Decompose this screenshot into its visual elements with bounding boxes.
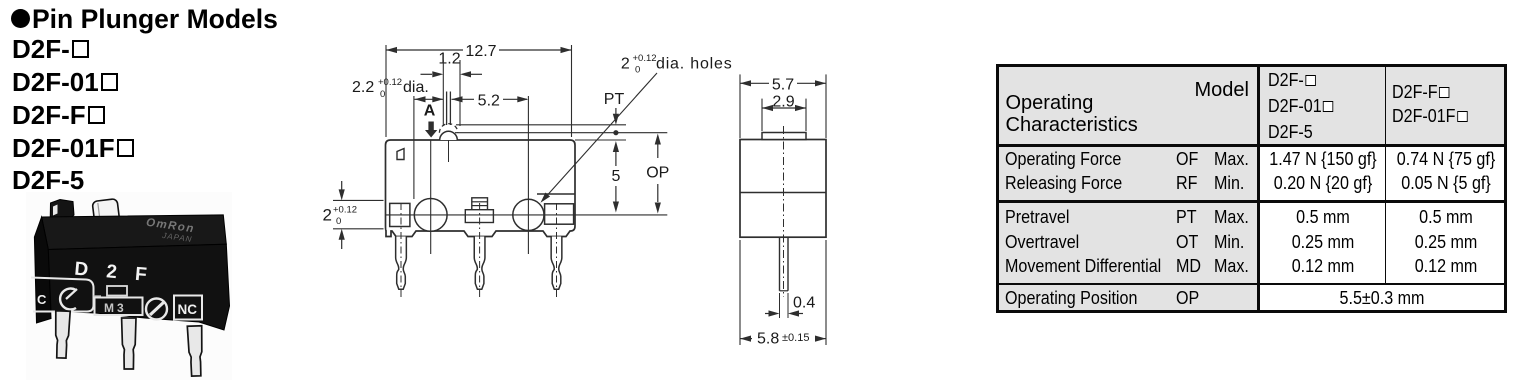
- svg-text:PT: PT: [604, 91, 625, 108]
- svg-text:5: 5: [611, 168, 620, 185]
- svg-text:M3: M3: [104, 301, 127, 315]
- svg-text:0: 0: [380, 89, 385, 100]
- svg-text:5.2: 5.2: [478, 92, 500, 109]
- svg-text:dia. holes: dia. holes: [656, 56, 733, 73]
- svg-text:12.7: 12.7: [465, 43, 496, 60]
- svg-text:NC: NC: [178, 302, 198, 317]
- svg-text:C: C: [37, 292, 47, 307]
- svg-text:±0.15: ±0.15: [782, 332, 809, 344]
- svg-text:0: 0: [635, 65, 640, 76]
- svg-text:2: 2: [621, 56, 630, 73]
- svg-text:A: A: [424, 103, 436, 120]
- svg-text:5.7: 5.7: [772, 76, 794, 93]
- svg-text:2.2: 2.2: [352, 79, 374, 96]
- svg-text:+0.12: +0.12: [333, 205, 357, 216]
- svg-text:OP: OP: [646, 165, 669, 182]
- svg-text:0: 0: [336, 216, 341, 227]
- svg-text:+0.12: +0.12: [633, 53, 657, 64]
- svg-text:0.4: 0.4: [793, 295, 815, 312]
- svg-text:1.2: 1.2: [438, 51, 460, 68]
- svg-text:+0.12: +0.12: [378, 77, 402, 88]
- svg-text:2: 2: [323, 206, 332, 225]
- svg-text:5.8: 5.8: [757, 331, 779, 348]
- svg-text:dia.: dia.: [403, 79, 429, 96]
